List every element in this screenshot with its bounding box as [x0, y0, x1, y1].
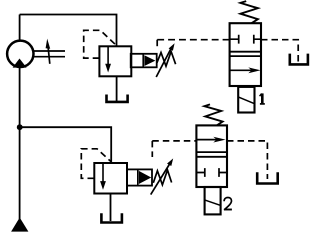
pilot dashed box around V1: [84, 30, 117, 58]
reducing valve V1 body square: [99, 46, 131, 76]
valve 2 body: [196, 125, 227, 187]
valve 2 spring: [204, 104, 222, 125]
pilot dashed line V1 to valve 1: [157, 39, 229, 41]
valve 1 spring: [240, 1, 258, 23]
ground tank triangle: [11, 218, 28, 232]
tank T3 right of valve 1: [290, 54, 308, 65]
valve 1 orifice rectangle: [238, 87, 254, 113]
adjustment arrow of V1 pilot: [156, 43, 174, 77]
valve 1 divider lower: [230, 55, 261, 57]
label 2: [224, 198, 232, 210]
reducing valve V2 internal flow arrow: [100, 164, 106, 190]
valve 2 divider lower: [196, 156, 227, 158]
tank T1 under reducing valve V1: [107, 95, 128, 102]
wire top supply run to reducing valve V1: [20, 15, 117, 47]
pump P1 circle: [7, 41, 33, 67]
pump P1 drain double line upper: [33, 50, 65, 52]
spring of V1 pilot: [157, 52, 176, 67]
valve 1 orifice diagonal: [238, 97, 254, 104]
wire V2 drain to tank: [110, 194, 112, 222]
wire pump top riser: [19, 15, 21, 41]
reducing valve V2 body square: [94, 163, 127, 194]
tank T4 right of valve 2: [257, 172, 278, 183]
pilot dashed line V2 to valve 2: [152, 140, 196, 142]
valve 2 divider upper: [196, 151, 227, 153]
adjustment arrow of V2 pilot: [151, 158, 174, 194]
label 1: [260, 93, 265, 104]
wire pump bottom to tank: [19, 67, 21, 219]
reducing valve V1 internal flow arrow: [105, 47, 111, 73]
spring of V2 pilot: [153, 170, 171, 185]
valve 2 blocked port left T: [196, 168, 204, 177]
valve 1 divider upper: [230, 51, 261, 53]
node junction dot: [17, 124, 23, 130]
pilot dashed line V1 stub down to spring: [156, 40, 158, 49]
pump P1 drain double line lower: [33, 56, 65, 58]
valve 1 flow arrow: [231, 67, 261, 73]
proportional solenoid box of V1: [131, 54, 157, 68]
wire V1 drain to tank: [116, 76, 118, 101]
valve 2 orifice diagonal: [205, 200, 221, 206]
wire branch to reducing valve V2: [20, 127, 112, 163]
valve 1 body: [230, 23, 261, 86]
proportional solenoid box of V2: [127, 169, 152, 185]
pump P1 flow triangle: [13, 59, 27, 68]
valve 1 blocked port left T: [230, 35, 239, 44]
pilot dashed box around V2: [81, 149, 111, 179]
pilot dashed line valve 1 to tank T3: [261, 40, 298, 62]
pilot dashed line V2 stub down to spring: [151, 141, 153, 157]
valve 1 blocked port right T: [254, 35, 261, 44]
tank T2 under reducing valve V2: [101, 213, 122, 222]
valve 2 orifice rectangle: [205, 187, 221, 214]
pump P1 variable displacement arrow: [46, 39, 51, 64]
pilot dashed line valve 2 to tank T4: [227, 141, 267, 179]
valve 2 flow arrow: [197, 137, 226, 143]
valve 2 blocked port right T: [219, 168, 227, 177]
